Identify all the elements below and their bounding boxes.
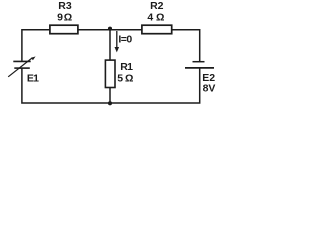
svg-text:9: 9 [57, 11, 63, 23]
svg-text:4: 4 [147, 12, 153, 24]
wire: middle branch upper (node A to R1) [109, 30, 111, 61]
wire: right branch top (R2 across and down to E2) [172, 30, 200, 61]
wire: top middle (R3 to R2) [78, 29, 142, 31]
svg-text:8V: 8V [203, 83, 216, 95]
svg-text:I=0: I=0 [118, 33, 132, 45]
svg-text:Ω: Ω [64, 11, 72, 23]
wire: right branch bottom (E2 down, along bottom to node B) [110, 68, 200, 103]
EMF source E1 top plate [13, 60, 30, 62]
svg-text:R2: R2 [150, 0, 164, 12]
node: bottom junction dot [108, 101, 112, 105]
wire: middle branch lower (R1 to node B) [109, 88, 111, 104]
resistor R3 [50, 25, 78, 34]
wire: left branch bottom (E1 bottom plate down, along bottom to node B) [22, 68, 110, 103]
battery E2 short plate [193, 61, 205, 63]
svg-text:Ω: Ω [125, 72, 133, 84]
E1 variability arrow (diagonal) [8, 58, 32, 77]
svg-text:E1: E1 [27, 73, 39, 85]
resistor R1 [105, 60, 115, 87]
current arrow I=0 [116, 31, 118, 48]
svg-text:Ω: Ω [156, 12, 164, 24]
node: top junction dot [108, 27, 112, 31]
battery E2 long plate [185, 67, 214, 69]
svg-text:5: 5 [117, 72, 123, 84]
svg-text:R1: R1 [120, 61, 133, 73]
resistor R2 [142, 25, 172, 34]
wire: left branch top (E1 top plate up, across to R3) [22, 30, 50, 61]
EMF source E1 bottom plate [14, 67, 29, 69]
svg-text:R3: R3 [58, 0, 72, 12]
